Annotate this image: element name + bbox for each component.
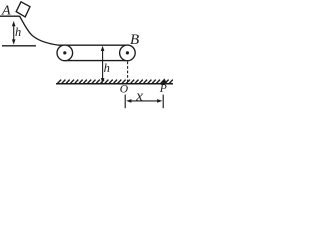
ground line	[56, 83, 173, 85]
height arrow h (left)	[13, 24, 15, 42]
ground hatching	[58, 80, 173, 84]
svg-text:B: B	[130, 32, 139, 48]
right tick of x dimension	[162, 95, 164, 109]
left roller	[57, 45, 73, 61]
svg-text:P: P	[159, 83, 167, 95]
dashed line from B down to O	[127, 62, 129, 82]
left tick of x dimension	[124, 95, 126, 109]
block on ramp (tilted square)	[16, 2, 30, 17]
svg-text:O: O	[120, 84, 129, 96]
landing point marker at P	[162, 78, 167, 83]
svg-text:x: x	[135, 89, 143, 105]
height arrow h (middle)	[102, 48, 104, 81]
conveyor belt bottom line	[65, 60, 128, 62]
x dimension arrow	[129, 100, 161, 102]
baseline under left h arrow	[2, 45, 36, 47]
platform line under A	[0, 15, 20, 17]
conveyor belt top line	[60, 44, 128, 46]
curved ramp	[20, 16, 60, 45]
svg-text:h: h	[15, 25, 21, 39]
svg-text:h: h	[104, 61, 110, 75]
right roller	[120, 45, 136, 61]
